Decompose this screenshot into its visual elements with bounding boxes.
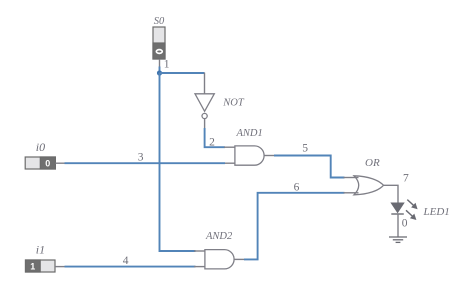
svg-text:AND2: AND2: [205, 231, 233, 242]
svg-text:2: 2: [209, 137, 215, 149]
pin stub NOT input: [204, 73, 206, 94]
wire S0 to junction: [159, 67, 161, 74]
svg-text:6: 6: [294, 181, 300, 193]
pin stub AND2 input A: [194, 250, 205, 252]
pin stub AND1 input A: [224, 146, 235, 148]
svg-text:3: 3: [138, 152, 144, 164]
pin stub OR input A: [344, 177, 359, 179]
svg-text:AND1: AND1: [236, 128, 263, 139]
ground: [389, 237, 407, 242]
pin stub OR output / wire net 7: [384, 185, 399, 203]
svg-text:LED1: LED1: [423, 206, 450, 218]
pin stub S0: [159, 59, 161, 67]
svg-text:S0: S0: [154, 16, 165, 27]
wire net 3: [65, 162, 226, 164]
svg-text:i1: i1: [36, 243, 45, 257]
svg-text:7: 7: [403, 173, 409, 185]
svg-text:0: 0: [402, 218, 408, 230]
pin stub i0: [55, 162, 64, 164]
svg-text:1: 1: [30, 261, 35, 271]
input switch i1: [26, 243, 56, 272]
pin stub AND2 output: [234, 258, 244, 260]
NOT gate: [195, 94, 245, 119]
switch S0: [153, 16, 165, 59]
LED LED1: [391, 200, 449, 220]
OR gate: [354, 157, 384, 195]
pin stub AND1 input B: [224, 162, 235, 164]
svg-text:0: 0: [45, 158, 50, 168]
wire net 5: [274, 156, 345, 178]
pin stub NOT output: [204, 119, 206, 128]
svg-text:NOT: NOT: [222, 98, 245, 109]
input switch i0: [25, 140, 55, 169]
wire net 2: [205, 128, 225, 147]
pin stub AND1 output: [264, 155, 274, 157]
wire net 4: [65, 266, 196, 268]
AND gate AND1: [235, 128, 264, 165]
svg-text:i0: i0: [36, 140, 45, 154]
svg-text:4: 4: [123, 255, 129, 267]
wire LED to ground: [397, 214, 399, 237]
wire junction to AND2 (vertical): [160, 73, 196, 251]
pin stub i1: [55, 266, 65, 268]
svg-text:OR: OR: [365, 157, 380, 169]
svg-text:5: 5: [302, 143, 308, 155]
junction A: [157, 70, 162, 75]
wire junction to NOT: [160, 72, 205, 74]
pin stub OR input B: [344, 192, 359, 194]
AND gate AND2: [205, 231, 234, 269]
pin stub AND2 input B: [194, 266, 205, 268]
wire net 6: [244, 193, 345, 260]
svg-text:1: 1: [164, 58, 170, 70]
